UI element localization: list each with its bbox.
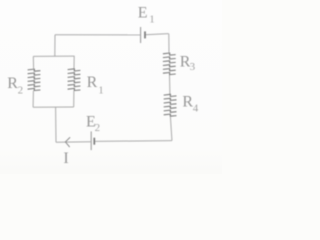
wire right vertical (R4 to bottom-right corner): [170, 117, 172, 141]
wire between R3 and R4: [169, 75, 171, 94]
battery E2 short plate: [93, 138, 95, 145]
wire right vertical (corner to R3): [168, 34, 170, 53]
battery E1 short plate: [144, 31, 146, 38]
wire top (left segment to battery E1): [55, 34, 140, 36]
svg-text:R: R: [7, 75, 18, 92]
svg-text:1: 1: [98, 84, 104, 96]
svg-text:1: 1: [149, 13, 155, 25]
svg-text:R: R: [87, 74, 98, 91]
battery E2 long plate: [90, 131, 92, 150]
wire bottom (battery E2 to left corner): [56, 141, 91, 144]
resistor R3: [163, 53, 176, 75]
svg-text:4: 4: [193, 103, 199, 115]
wire bottom (right corner to battery E2): [95, 140, 172, 143]
wire bottom rail of parallel pair: [33, 106, 74, 108]
wire left tap (bottom wire up to parallel rail): [55, 107, 57, 142]
battery E1 long plate: [140, 27, 142, 43]
resistor R1: [68, 69, 81, 91]
svg-text:E: E: [138, 5, 148, 22]
resistor R2: [28, 69, 41, 90]
svg-text:3: 3: [190, 61, 196, 73]
resistor R4: [164, 94, 177, 116]
wire right branch upper stub: [73, 56, 75, 68]
wire top (battery E1 to top-right corner): [145, 34, 168, 35]
svg-text:2: 2: [18, 85, 24, 97]
wire left branch upper stub: [32, 56, 34, 68]
svg-text:I: I: [63, 150, 68, 167]
wire top tap (rail up to top wire): [54, 35, 56, 56]
wire right branch lower stub: [73, 91, 75, 107]
wire left branch lower stub: [32, 91, 34, 108]
svg-text:R: R: [182, 93, 193, 110]
current arrow I: [65, 137, 70, 147]
wire top rail of parallel pair: [33, 55, 74, 57]
svg-text:2: 2: [95, 122, 101, 134]
